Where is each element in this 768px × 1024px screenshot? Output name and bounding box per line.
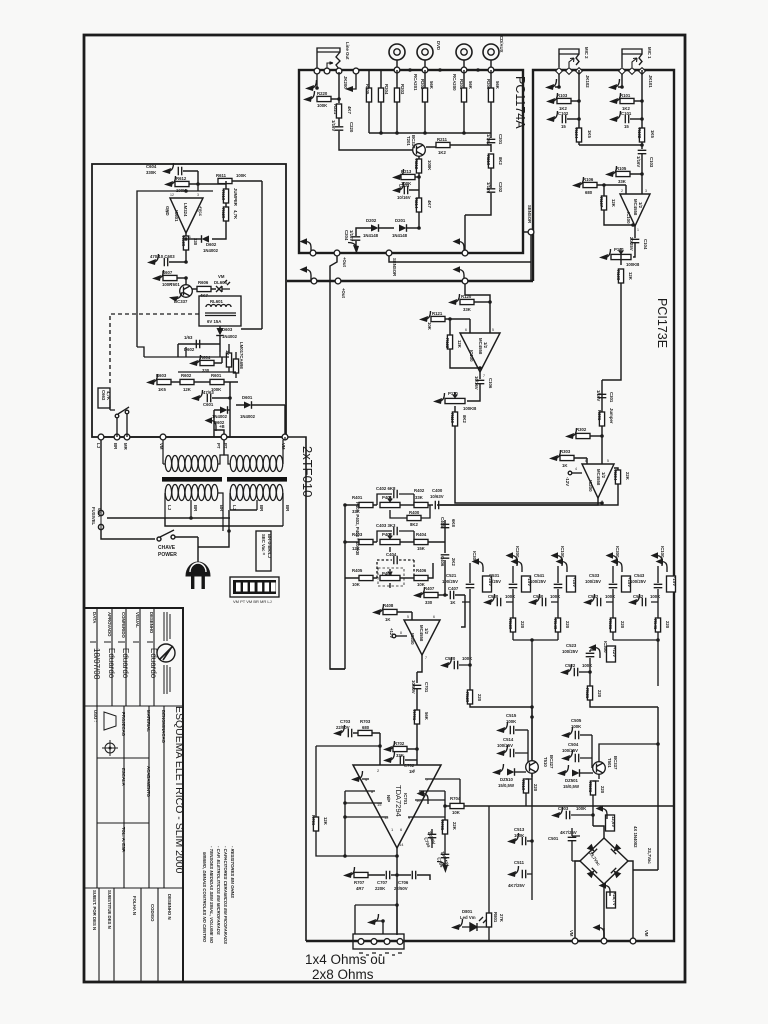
- svg-text:TOL. A. ESP.: TOL. A. ESP.: [121, 827, 126, 852]
- capacitor C531: [509, 584, 518, 587]
- op-amp IC300 MC4558: [404, 620, 440, 655]
- svg-text:T201: T201: [406, 136, 411, 146]
- AC bus wire: [101, 436, 286, 438]
- mixer output wire: [437, 498, 598, 505]
- inner outline: [137, 191, 213, 347]
- svg-text:C101: C101: [621, 111, 632, 116]
- capacitor C542: [642, 598, 645, 607]
- resistor R604 330: [189, 355, 201, 366]
- svg-text:C505: C505: [571, 718, 582, 723]
- svg-text:N/P: N/P: [386, 795, 391, 802]
- capacitor C301: [598, 394, 607, 397]
- svg-text:LM324: LM324: [183, 203, 188, 217]
- wire top: [197, 184, 199, 191]
- svg-text:JK200: JK200: [343, 76, 348, 89]
- svg-text:C604: C604: [146, 164, 157, 169]
- svg-text:100/25V: 100/25V: [562, 748, 578, 753]
- svg-text:+12V: +12V: [612, 647, 617, 657]
- svg-text:220: 220: [600, 786, 605, 794]
- svg-text:1/16V: 1/16V: [486, 134, 491, 145]
- op-amp IC100 MC4558: [460, 333, 500, 372]
- resistor R210 8K2: [488, 154, 493, 168]
- svg-text:Eduardo: Eduardo: [149, 648, 158, 679]
- svg-text:T510: T510: [543, 757, 548, 767]
- svg-text:12K: 12K: [183, 387, 192, 392]
- supply -12V pin: [568, 471, 572, 475]
- interlock dashed link: [110, 314, 199, 386]
- diode D601 1N4002: [244, 401, 252, 409]
- capacitor C402 6K8: [377, 494, 414, 505]
- svg-text:D603: D603: [222, 327, 233, 332]
- mix node wire: [601, 380, 603, 464]
- svg-text:PT: PT: [216, 443, 221, 449]
- resistor R403 12K: [345, 541, 377, 543]
- resistor R629 4,7K: [225, 203, 227, 207]
- svg-text:5: 5: [492, 328, 494, 332]
- bridge rectifier 4x 1N4002: [580, 838, 628, 884]
- svg-text:CHAVE: CHAVE: [158, 545, 176, 551]
- svg-text:470/10 C603: 470/10 C603: [150, 254, 175, 259]
- svg-text:R629: R629: [221, 208, 226, 219]
- svg-text:C513: C513: [514, 827, 525, 832]
- svg-text:IC200: IC200: [588, 480, 593, 492]
- resistor R108 12K: [620, 252, 622, 265]
- resistor R301 jumper: [599, 412, 604, 426]
- voltage box +28V: [607, 892, 616, 908]
- summing wire: [369, 132, 491, 134]
- capacitor C404: [377, 560, 414, 578]
- node VM: [160, 434, 166, 440]
- svg-text:SENSOR: SENSOR: [392, 258, 397, 277]
- svg-text:R406: R406: [416, 568, 427, 573]
- svg-text:Eduardo: Eduardo: [107, 648, 116, 679]
- resistor R605: [226, 353, 231, 367]
- capacitor C203: [392, 182, 404, 193]
- svg-text:C301: C301: [609, 392, 614, 403]
- svg-text:1/2: 1/2: [424, 628, 429, 635]
- node PT PT: [221, 434, 227, 440]
- svg-text:IC100: IC100: [626, 212, 631, 224]
- outer frame: [84, 35, 685, 982]
- svg-text:CD/AUX: CD/AUX: [499, 36, 504, 53]
- svg-text:MC4558: MC4558: [596, 469, 601, 486]
- svg-text:C515: C515: [506, 713, 517, 718]
- svg-text:VM: VM: [218, 274, 225, 279]
- svg-text:R510: R510: [521, 780, 526, 791]
- svg-text:C522: C522: [565, 663, 576, 668]
- capacitor C603 470/10: [147, 254, 159, 265]
- node circles line out: [314, 68, 320, 74]
- svg-text:56K: 56K: [495, 81, 500, 90]
- svg-text:C402 6K8: C402 6K8: [376, 486, 396, 491]
- svg-text:R610: R610: [221, 190, 226, 201]
- capacitor C663: [98, 388, 110, 408]
- svg-text:R704: R704: [450, 796, 461, 801]
- resistor R204: [378, 88, 383, 102]
- svg-text:1/16V: 1/16V: [636, 156, 641, 167]
- capacitor C604 330K: [162, 163, 174, 174]
- capacitor C530: [497, 598, 500, 607]
- IC300 output wire: [417, 655, 422, 672]
- svg-text:33K: 33K: [618, 179, 627, 184]
- svg-text:C532: C532: [588, 594, 599, 599]
- resistor R212 100K: [416, 159, 421, 173]
- svg-text:LJ: LJ: [96, 443, 101, 449]
- capacitor C703 + resistor R703 680: [333, 725, 345, 736]
- svg-text:Eduardo: Eduardo: [121, 648, 130, 679]
- logo: [157, 612, 175, 694]
- svg-text:R202: R202: [420, 79, 425, 90]
- svg-text:R214: R214: [414, 198, 419, 209]
- capacitor C102 15: [546, 111, 558, 122]
- capacitor C403 3K3: [377, 531, 414, 542]
- resistor R201 56K: [461, 88, 466, 102]
- svg-text:C514: C514: [503, 737, 514, 742]
- op-amp output wire: [634, 226, 636, 238]
- svg-text:R106: R106: [583, 177, 594, 182]
- capacitor C707 220K: [386, 871, 389, 880]
- PC1174A board box: [299, 70, 523, 253]
- svg-text:C543: C543: [634, 573, 645, 578]
- jack MIC 2: [559, 49, 579, 67]
- capacitor C400 10/63V: [435, 501, 438, 510]
- svg-text:P401: P401: [382, 495, 393, 500]
- svg-text:C404: C404: [386, 552, 397, 557]
- svg-text:2x8 Ohms: 2x8 Ohms: [312, 967, 374, 982]
- svg-text:6V 15A: 6V 15A: [207, 319, 221, 324]
- svg-text:1/2: 1/2: [638, 202, 643, 209]
- input coupling wire: [416, 672, 418, 683]
- junction: [189, 516, 193, 520]
- svg-text:100/25V: 100/25V: [562, 649, 578, 654]
- svg-text:C540: C540: [533, 594, 544, 599]
- capacitor C405 6K8: [444, 520, 446, 542]
- capacitor C106: [476, 380, 485, 383]
- svg-text:DZ510: DZ510: [500, 777, 514, 782]
- cap C522 100K: [560, 664, 572, 675]
- node LJ: [98, 434, 104, 440]
- resistor R400 8K2: [390, 510, 407, 518]
- svg-text:100K: 100K: [317, 103, 328, 108]
- svg-text:BC337: BC337: [411, 135, 416, 149]
- svg-text:PC1174A: PC1174A: [513, 76, 527, 129]
- svg-text:23,7Vac: 23,7Vac: [647, 848, 652, 864]
- svg-text:C523: C523: [566, 643, 577, 648]
- sensor wire: [389, 232, 531, 281]
- svg-text:1K5: 1K5: [158, 387, 166, 392]
- mains plug: [186, 556, 210, 589]
- svg-text:LJ: LJ: [167, 505, 172, 511]
- svg-text:D202: D202: [366, 218, 377, 223]
- svg-text:D601: D601: [242, 395, 253, 400]
- svg-text:330K: 330K: [146, 170, 157, 175]
- svg-text:+28,7V: +28,7V: [612, 892, 617, 906]
- resistor R702 33K: [383, 741, 395, 752]
- svg-text:4R7: 4R7: [356, 886, 364, 891]
- svg-text:PCI173E: PCI173E: [655, 298, 669, 348]
- svg-text:100/25V: 100/25V: [497, 743, 513, 748]
- RCA DVD R: [417, 44, 433, 60]
- resistor R303 1K: [549, 450, 561, 461]
- svg-text:33K: 33K: [352, 509, 361, 514]
- svg-text:C102: C102: [558, 111, 569, 116]
- svg-text:R501: R501: [588, 782, 593, 793]
- resistor R521 220: [587, 686, 592, 700]
- svg-text:1K: 1K: [562, 463, 568, 468]
- svg-text:C520: C520: [445, 656, 456, 661]
- resistor R213 100K: [392, 169, 404, 180]
- svg-text:DATA: DATA: [92, 612, 97, 623]
- resistor R402 33K: [400, 504, 414, 506]
- capacitor C103: [638, 150, 647, 153]
- signal wire down-left: [330, 256, 345, 669]
- svg-text:VM: VM: [569, 930, 574, 937]
- svg-text:R607: R607: [162, 270, 173, 275]
- svg-text:- TENSOES MEDIDAS SEM SINAL, V: - TENSOES MEDIDAS SEM SINAL, VOLUME NO: [209, 846, 214, 944]
- LED DL604 VM: [216, 280, 230, 292]
- wire: [606, 566, 613, 618]
- svg-text:10K: 10K: [427, 322, 432, 331]
- svg-text:1N4002: 1N4002: [222, 334, 238, 339]
- svg-text:4K7: 4K7: [347, 106, 352, 114]
- resistor R607 100K: [152, 270, 164, 281]
- resistor R530 220: [510, 618, 515, 632]
- resistor R405 10K: [345, 577, 377, 579]
- svg-text:R200: R200: [486, 79, 491, 90]
- svg-text:1/16V: 1/16V: [331, 120, 336, 131]
- svg-text:10K: 10K: [352, 582, 361, 587]
- svg-text:C106: C106: [488, 378, 493, 389]
- switch CHAVE POWER: [157, 530, 198, 556]
- svg-text:2K2: 2K2: [451, 558, 456, 566]
- svg-text:14: 14: [399, 842, 404, 847]
- svg-text:330: 330: [425, 600, 433, 605]
- zobel box: [355, 905, 397, 934]
- resistor R706 56K: [316, 746, 380, 817]
- svg-text:15: 15: [561, 124, 566, 129]
- resistor R540 220: [555, 618, 560, 632]
- out arrow: [352, 74, 356, 89]
- svg-text:R703: R703: [360, 719, 371, 724]
- svg-text:R405: R405: [352, 568, 363, 573]
- svg-text:CODIGO: CODIGO: [150, 904, 155, 922]
- svg-text:APROVADO: APROVADO: [107, 612, 112, 637]
- svg-text:C104: C104: [643, 239, 648, 250]
- svg-text:C542: C542: [633, 594, 644, 599]
- svg-text:C707: C707: [377, 880, 388, 885]
- svg-text:11: 11: [165, 209, 169, 213]
- svg-text:POWER: POWER: [158, 552, 177, 558]
- svg-text:56K: 56K: [424, 712, 429, 721]
- svg-text:C541: C541: [534, 573, 545, 578]
- svg-text:D602: D602: [206, 242, 217, 247]
- resistor R106 680: [572, 177, 584, 188]
- op-amp IC200 MC4558: [582, 464, 614, 498]
- svg-text:R120: R120: [461, 294, 472, 299]
- svg-text:8K2: 8K2: [498, 157, 503, 165]
- svg-text:100/25V: 100/25V: [585, 579, 601, 584]
- svg-text:15/0,5W: 15/0,5W: [498, 783, 515, 788]
- svg-text:C706: C706: [398, 880, 409, 885]
- wire C501 to bridge: [572, 852, 580, 861]
- svg-text:R401: R401: [352, 495, 363, 500]
- svg-text:R210: R210: [486, 155, 491, 166]
- wire: [551, 566, 558, 618]
- svg-text:100K: 100K: [514, 833, 525, 838]
- svg-text:IC701: IC701: [403, 793, 408, 805]
- capacitor C202: [465, 193, 491, 253]
- svg-text:MATERIAL: MATERIAL: [146, 710, 151, 732]
- resistor R603 1K5: [146, 374, 158, 385]
- resistor R221: [336, 104, 341, 118]
- svg-text:USO :: USO :: [93, 710, 98, 723]
- capacitor C406 2K2: [444, 542, 446, 595]
- svg-text:FOLHA N: FOLHA N: [132, 896, 137, 915]
- resistor R102 1K5: [639, 128, 644, 142]
- node MR: [124, 434, 130, 440]
- svg-text:8K2: 8K2: [410, 522, 418, 527]
- output node: [396, 848, 398, 935]
- resistor R408 1K: [372, 604, 384, 615]
- svg-text:C405: C405: [440, 517, 445, 528]
- wire dots on top edge: [408, 68, 412, 72]
- filter group C543/C542: [628, 546, 677, 640]
- svg-text:22K: 22K: [625, 472, 630, 481]
- output wire: [479, 372, 481, 379]
- diode D202 1N4148: [371, 224, 379, 232]
- capacitor C543: [654, 584, 663, 587]
- capacitor C101 15: [609, 111, 621, 122]
- svg-text:7: 7: [601, 500, 603, 504]
- voltage box -12,6V: [606, 815, 615, 831]
- svg-text:VM PT VM BR MR LJ: VM PT VM BR MR LJ: [233, 599, 272, 604]
- capacitor C407 1K: [450, 591, 453, 600]
- svg-text:BR: BR: [259, 505, 264, 512]
- capacitor C533: [609, 584, 618, 587]
- title block: [84, 608, 183, 982]
- svg-text:220K: 220K: [375, 886, 386, 891]
- svg-text:ESQUEMA ELETRICO - SLIM 2000: ESQUEMA ELETRICO - SLIM 2000: [173, 706, 185, 874]
- svg-text:1N4002: 1N4002: [203, 248, 219, 253]
- voltage label box: [522, 576, 531, 592]
- svg-text:15: 15: [624, 124, 629, 129]
- svg-text:100KB: 100KB: [626, 262, 639, 267]
- svg-text:100K: 100K: [462, 656, 473, 661]
- transformer T2 primary winding: [224, 437, 285, 472]
- svg-text:R408: R408: [383, 603, 394, 608]
- wire from +Out bus down: [465, 284, 490, 333]
- svg-text:2xTF010: 2xTF010: [300, 446, 315, 497]
- capacitor C541: [554, 584, 563, 587]
- svg-text:C406: C406: [440, 556, 445, 567]
- svg-text:680: 680: [362, 725, 370, 730]
- svg-text:6: 6: [465, 328, 467, 332]
- signal wire to amp: [330, 578, 345, 669]
- capacitor C104: [631, 239, 640, 242]
- svg-text:1/63: 1/63: [184, 335, 193, 340]
- svg-text:P403: P403: [382, 571, 393, 576]
- svg-text:220: 220: [597, 690, 602, 698]
- wire: [651, 566, 658, 618]
- svg-text:27K: 27K: [499, 914, 504, 923]
- svg-text:R220: R220: [317, 91, 328, 96]
- svg-text:P402: P402: [382, 532, 393, 537]
- svg-text:20/25V: 20/25V: [629, 237, 634, 251]
- capacitor C702 1K: [383, 752, 395, 763]
- resistor R121 10K: [419, 311, 431, 322]
- bus nodes 281: [311, 278, 317, 284]
- pin stubs left: [345, 779, 397, 856]
- svg-text:R108: R108: [616, 270, 621, 281]
- svg-text:10/50V: 10/50V: [411, 680, 416, 694]
- svg-text:R105: R105: [616, 166, 627, 171]
- wire relay to bus: [214, 430, 224, 437]
- svg-text:33K: 33K: [415, 495, 424, 500]
- svg-text:SUBST. POR DES N: SUBST. POR DES N: [92, 890, 97, 930]
- transformer box edge: [286, 437, 306, 941]
- svg-text:R521: R521: [585, 688, 590, 699]
- resistor R601 100K: [210, 379, 224, 384]
- resistor R101 1K2: [609, 93, 621, 104]
- svg-text:4K7/25V: 4K7/25V: [560, 830, 577, 835]
- svg-text:R107: R107: [599, 197, 604, 208]
- pot P403 dashed: [378, 568, 404, 586]
- svg-text:MC4558: MC4558: [478, 338, 483, 355]
- resistor R406 10K: [400, 577, 414, 579]
- RCA CD/AUX R: [483, 44, 499, 60]
- svg-text:1N4148: 1N4148: [392, 233, 408, 238]
- svg-text:100K: 100K: [650, 594, 661, 599]
- svg-text:RCA201: RCA201: [413, 74, 418, 91]
- svg-text:R541: R541: [653, 619, 658, 630]
- svg-text:7: 7: [425, 656, 427, 660]
- svg-text:R201: R201: [459, 79, 464, 90]
- svg-text:3: 3: [197, 193, 199, 197]
- svg-text:BR-0-BR/LJ: BR-0-BR/LJ: [267, 534, 272, 558]
- svg-text:12K: 12K: [457, 340, 462, 349]
- svg-text:R211: R211: [437, 137, 448, 142]
- ground arrows on bus 253: [300, 238, 312, 252]
- capacitor C204: [356, 228, 362, 247]
- svg-text:R213: R213: [401, 169, 412, 174]
- resistor R602 12K: [180, 379, 194, 384]
- svg-text:4K7: 4K7: [427, 200, 432, 208]
- svg-text:C511: C511: [514, 860, 525, 865]
- resistor R302: [565, 428, 577, 439]
- svg-text:330: 330: [202, 368, 210, 373]
- wiper stubs: [389, 547, 391, 588]
- svg-text:12K: 12K: [611, 199, 616, 208]
- diode D201 1N4148: [399, 224, 407, 232]
- voltage label box: [622, 576, 631, 592]
- svg-text:1/16V: 1/16V: [486, 182, 491, 193]
- svg-text:D801: D801: [462, 909, 473, 914]
- svg-text:R102: R102: [637, 128, 642, 139]
- svg-text:MC4558: MC4558: [633, 199, 638, 216]
- svg-text:MIC 1: MIC 1: [647, 47, 652, 59]
- svg-text:R304: R304: [613, 470, 618, 481]
- node VM right: [282, 434, 288, 440]
- svg-text:C503: C503: [558, 806, 569, 811]
- cap C523 group: [562, 641, 617, 672]
- svg-text:C701: C701: [424, 682, 429, 693]
- svg-text:CONFERIDO: CONFERIDO: [121, 612, 126, 638]
- MIC2 nodes: [556, 68, 563, 75]
- resistor R541 220: [655, 618, 660, 632]
- voltage label box: [667, 576, 676, 592]
- svg-text:-28V: -28V: [488, 577, 493, 586]
- svg-text:Jumper: Jumper: [609, 408, 614, 424]
